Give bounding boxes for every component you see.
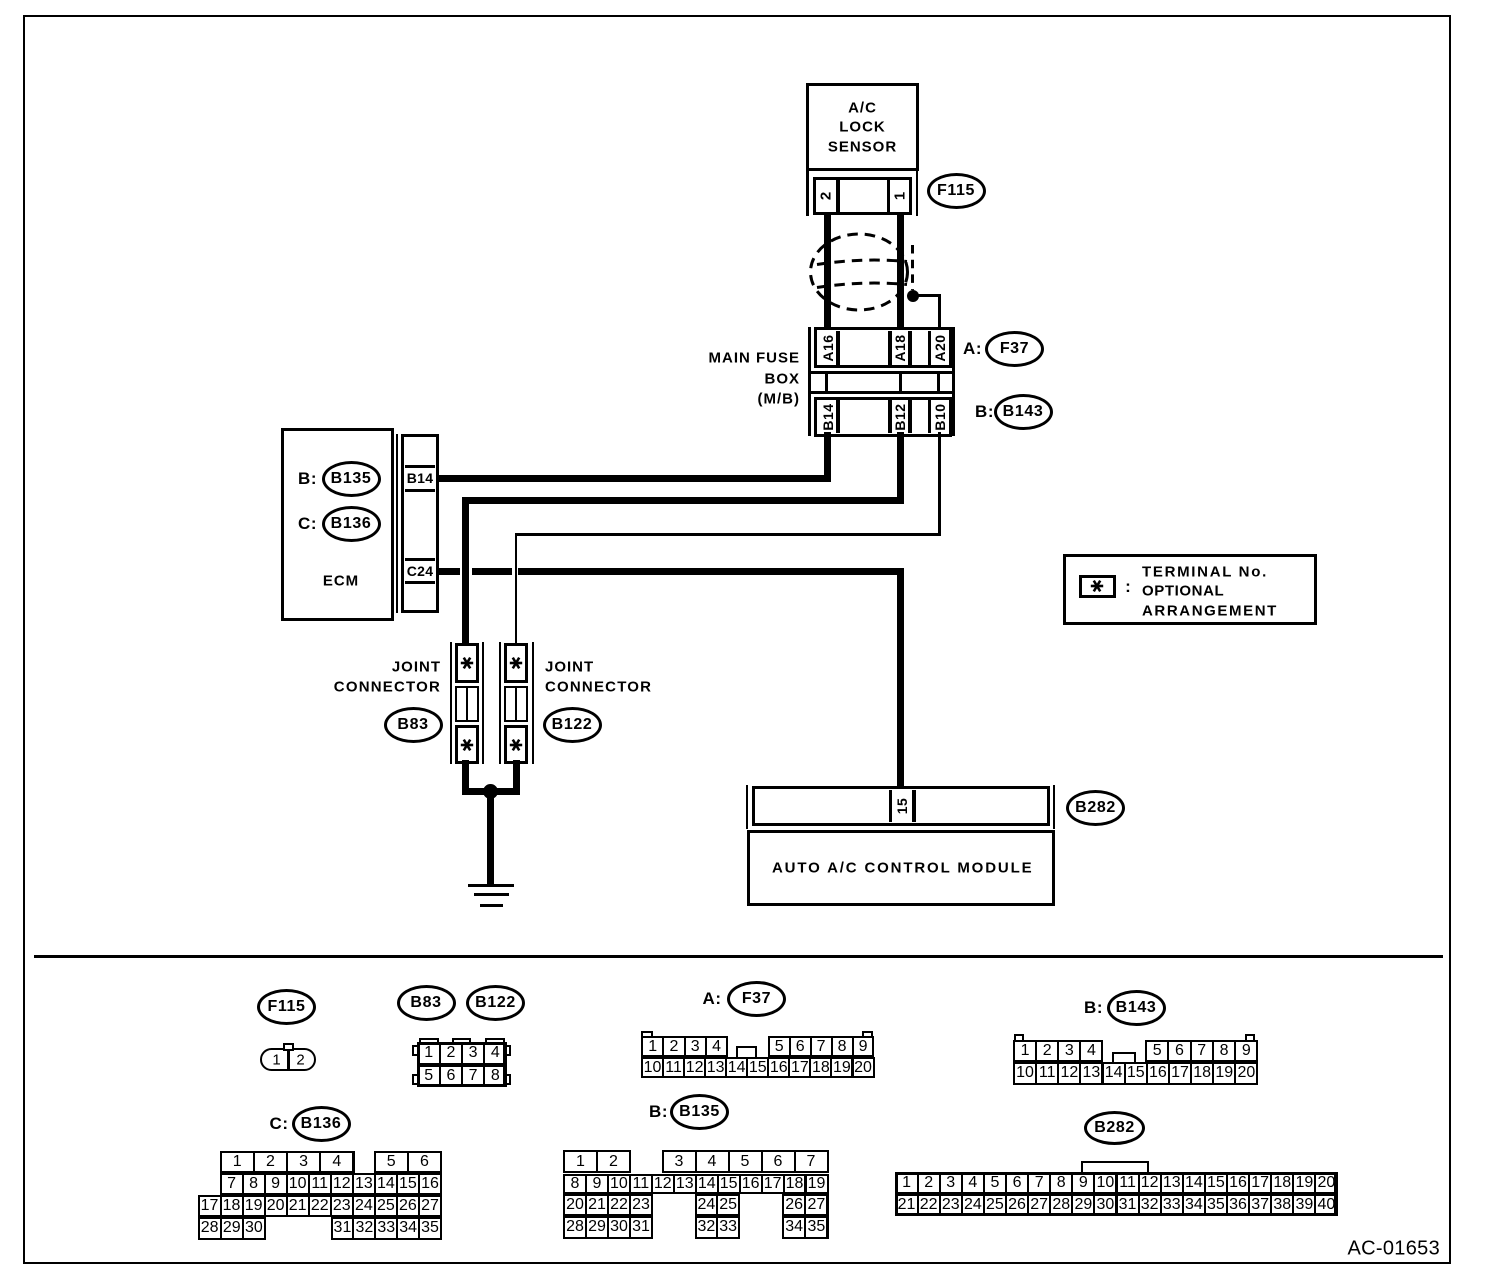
fuse box middle band: [808, 371, 955, 374]
connector label F115: [927, 173, 986, 209]
connector label B83: [384, 707, 443, 743]
connector label B282 (pinout): [1084, 1111, 1145, 1145]
connector F115 pinout: [260, 1048, 316, 1071]
wire pin2 to A16: [824, 215, 831, 332]
ground symbol: [468, 884, 514, 888]
ECM connector label B: B135: [298, 469, 317, 489]
ECM box: [281, 428, 394, 621]
fuse box connector row B: [814, 397, 952, 437]
joint connector B83 bottom cell: [455, 725, 480, 764]
legend text: [1142, 563, 1268, 580]
connector F115 pin row: [813, 177, 912, 215]
main fuse box label: [709, 349, 801, 366]
connector label F115 (pinout): [257, 989, 316, 1025]
wire B14 to ECM: [824, 432, 831, 482]
ground junction dot: [483, 784, 498, 799]
pin C24 cell: [405, 558, 436, 561]
fuse box rails: [808, 327, 811, 436]
joint connector B83 rails: [450, 642, 452, 764]
joint connector B122 bottom cell: [504, 725, 529, 764]
connector B135 pinout: [563, 1150, 598, 1173]
connector label B122: [543, 707, 602, 743]
connector B282 pinout: [895, 1172, 919, 1194]
wire B83 to ground junction: [462, 760, 469, 794]
pin B14 label: [820, 403, 836, 430]
A/C lock sensor box: [806, 83, 919, 171]
control module pin strip rails: [746, 785, 748, 829]
legend terminal symbol: [1079, 575, 1116, 599]
wire pin1 to A18: [897, 215, 904, 332]
wire B122 to ground junction: [513, 760, 520, 794]
ground junction bar: [462, 788, 520, 795]
junction dot: [907, 290, 919, 302]
pin A16 label: [820, 334, 836, 361]
connector label A: F37: [963, 339, 982, 359]
section divider line: [34, 955, 1443, 959]
pin 2 label: [818, 192, 835, 200]
fuse box connector row A: [814, 327, 952, 368]
connector label B: B143 (pinout): [1084, 998, 1103, 1018]
pin 15 label: [894, 797, 910, 814]
connector label A: F37 (pinout): [703, 989, 722, 1009]
joint connector B122 top cell: [504, 643, 529, 683]
connector label B: B135 (pinout): [649, 1102, 668, 1122]
connector F37 pinout: [641, 1036, 664, 1057]
wire B10 to joint connector B122: [938, 432, 941, 536]
wire B12 to joint connector B83: [897, 432, 904, 504]
ECM connector label C: B136: [298, 514, 317, 534]
joint connector B122 rails: [499, 642, 501, 764]
wire junction to A20: [911, 294, 941, 297]
connector label B122 (pinout): [466, 985, 525, 1021]
connector label B282: [1066, 790, 1125, 826]
pin B14 cell: [405, 465, 436, 468]
connector label B: B143: [975, 402, 994, 422]
legend box: [1063, 554, 1318, 626]
pin A20 label: [932, 334, 948, 361]
joint connector B83 middle cells: [455, 686, 480, 723]
control module pin strip: [752, 786, 1050, 826]
wire C24 to control module pin 15: [438, 568, 460, 575]
auto A/C control module box: [747, 830, 1055, 907]
pin 1 label: [892, 192, 909, 200]
joint connector B83 top cell: [455, 643, 480, 683]
ground stem: [487, 791, 494, 884]
figure number: [1348, 1238, 1440, 1261]
connector B83/B122 pinout: [417, 1042, 441, 1065]
ECM pin strip: [396, 434, 398, 614]
joint connector left label: [392, 659, 441, 676]
connector F115 rails: [806, 171, 809, 216]
joint connector B122 middle cells: [504, 686, 529, 723]
joint connector right label: [545, 659, 594, 676]
pin B12 label: [892, 403, 908, 430]
pin B10 label: [932, 403, 948, 430]
connector B143 pinout: [1013, 1040, 1037, 1063]
connector B136 pinout: [220, 1151, 255, 1174]
connector label C: B136 (pinout): [270, 1114, 289, 1134]
pin A18 label: [892, 334, 908, 361]
connector label B83 (pinout): [397, 985, 456, 1021]
harness pass-through (dashed): [795, 220, 965, 335]
